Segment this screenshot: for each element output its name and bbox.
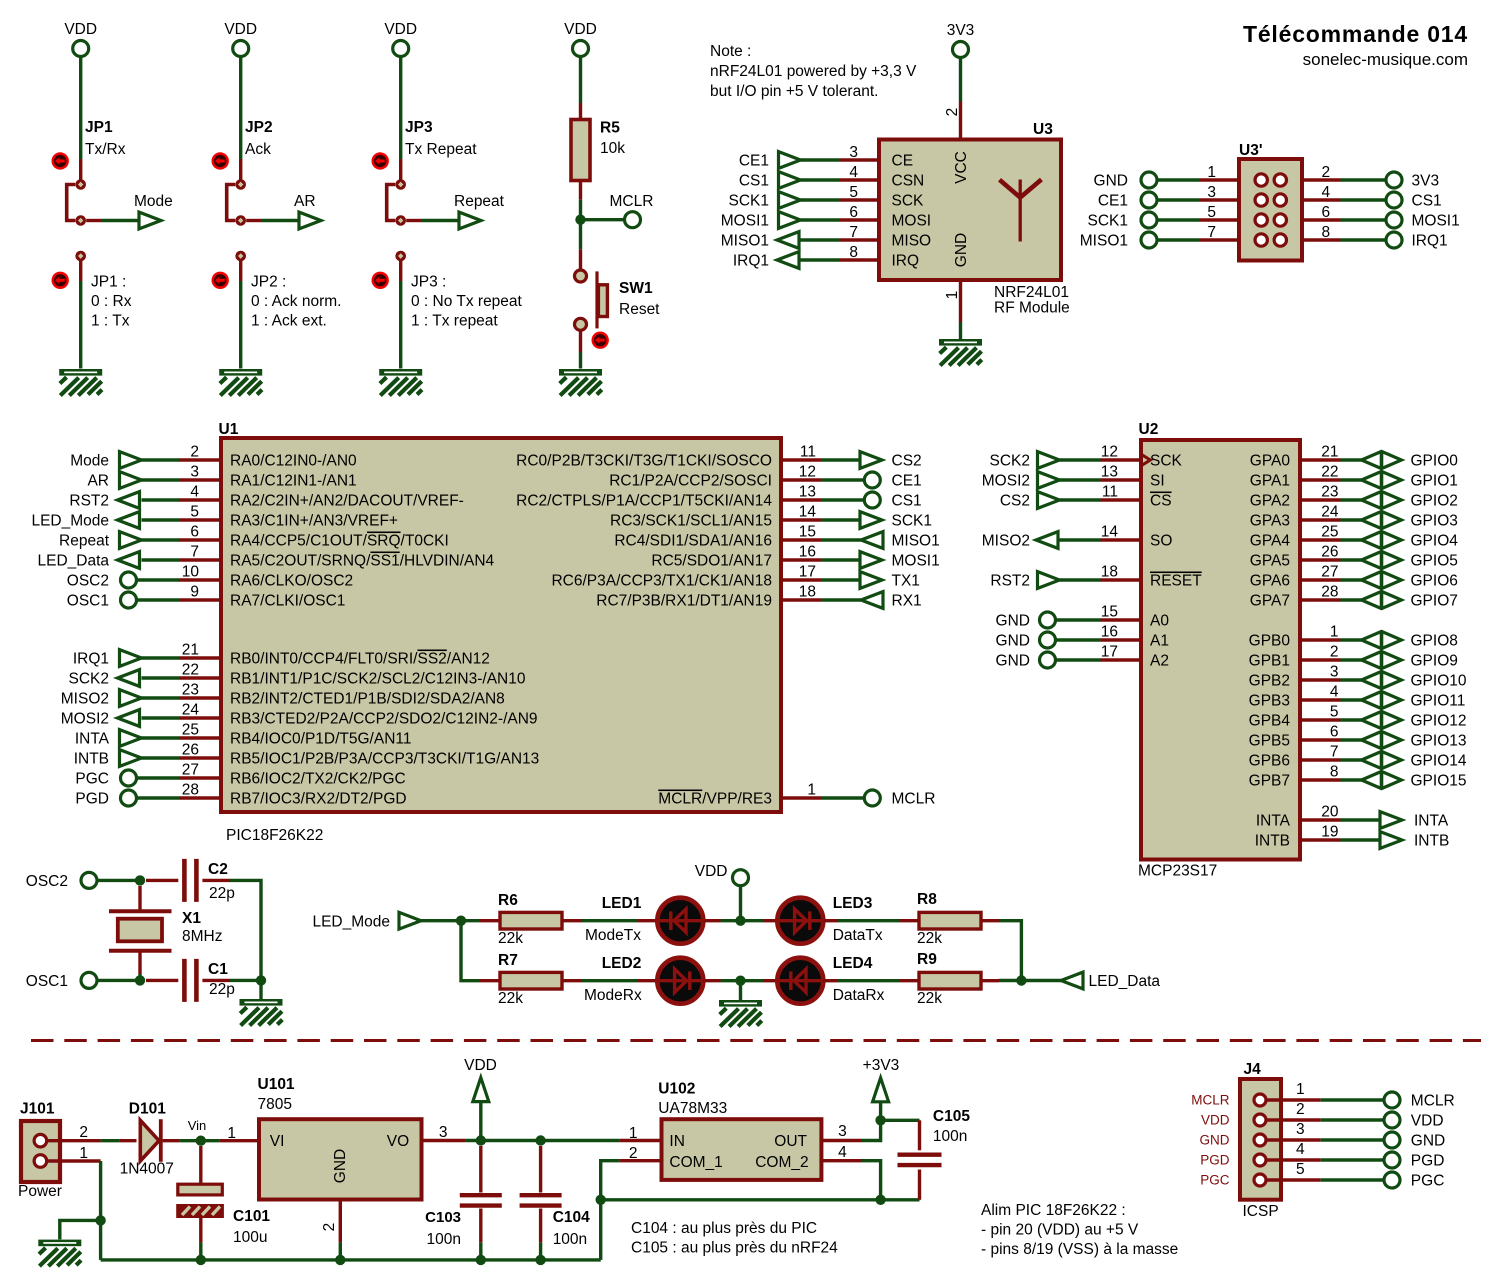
wire U3' pin 4 to CS1 — [1341, 198, 1387, 201]
U2 pin 7 (GPB6) — [1249, 744, 1341, 770]
svg-text:6: 6 — [190, 524, 199, 541]
svg-text:100n: 100n — [427, 1231, 461, 1248]
node Vin — [188, 1118, 207, 1146]
svg-text:CE: CE — [892, 153, 914, 170]
svg-text:RA7/CLKI/OSC1: RA7/CLKI/OSC1 — [230, 593, 345, 610]
node junction LED_Mode — [456, 916, 466, 926]
svg-text:Repeat: Repeat — [454, 193, 505, 210]
wire U2 pin 6 to GPIO13 — [1341, 738, 1362, 741]
terminal AR — [87, 472, 141, 490]
terminal PGD — [1384, 1152, 1444, 1170]
svg-text:IRQ1: IRQ1 — [73, 651, 109, 668]
terminal CS1 — [1386, 192, 1442, 210]
wire R7 to LED2 — [582, 979, 638, 982]
terminal GPIO6 — [1362, 571, 1458, 589]
svg-text:GPIO0: GPIO0 — [1411, 453, 1459, 470]
wire IRQ1 to U1 pin 21 — [142, 656, 180, 659]
svg-text:SCK2: SCK2 — [69, 671, 110, 688]
svg-text:GPIO13: GPIO13 — [1411, 733, 1467, 750]
wire ground node to LED4 — [741, 979, 764, 982]
power VDD terminal (R5 column) — [564, 21, 597, 57]
connector J101 Power — [18, 1101, 62, 1201]
svg-text:TX1: TX1 — [892, 573, 920, 590]
svg-text:VDD: VDD — [384, 21, 417, 38]
svg-text:CS1: CS1 — [892, 493, 922, 510]
wire CS2 to U2 pin 11 — [1060, 498, 1101, 501]
note text JP3 — [411, 274, 523, 330]
svg-text:LED_Mode: LED_Mode — [31, 513, 109, 530]
U1 pin 22 (SCK2) — [179, 662, 526, 688]
power 3V3 terminal — [947, 22, 975, 58]
U2 pin 13 (SI) — [1101, 464, 1165, 490]
RF module U3 NRF24L01 — [879, 102, 1070, 317]
wire R5 to SW1 — [579, 200, 582, 250]
svg-text:4: 4 — [190, 484, 199, 501]
wire MISO2 to U2 pin 14 — [1060, 538, 1101, 541]
svg-text:22k: 22k — [917, 990, 942, 1007]
J4 pin 2 (VDD) — [1201, 1101, 1321, 1128]
svg-text:GPA4: GPA4 — [1250, 533, 1291, 550]
svg-text:MCLR: MCLR — [610, 193, 654, 210]
U3 pin 5 SCK — [840, 184, 925, 210]
svg-text:Alim PIC 18F26K22 :: Alim PIC 18F26K22 : — [981, 1202, 1126, 1219]
svg-text:GPB4: GPB4 — [1249, 713, 1291, 730]
wire SCK2 to U2 pin 12 — [1060, 458, 1101, 461]
svg-text:10: 10 — [182, 564, 200, 581]
svg-text:nRF24L01 powered by +3,3 V: nRF24L01 powered by +3,3 V — [710, 63, 917, 80]
LED LED2 ModeRx — [584, 955, 721, 1004]
wire VDD to LED node — [739, 886, 742, 921]
J4 pin 5 (PGC) — [1200, 1161, 1320, 1188]
terminal SCK2 — [69, 670, 140, 688]
U2 pin 16 (A1) — [1101, 624, 1169, 650]
svg-text:3: 3 — [1207, 184, 1216, 201]
svg-text:100n: 100n — [933, 1128, 967, 1145]
svg-text:CE1: CE1 — [892, 473, 922, 490]
dashed separator line — [31, 1039, 1481, 1042]
svg-text:25: 25 — [182, 722, 199, 739]
svg-text:12: 12 — [799, 464, 816, 481]
U1 pin 27 (PGC) — [179, 762, 406, 788]
svg-text:Reset: Reset — [619, 301, 660, 318]
svg-text:SCK2: SCK2 — [990, 453, 1031, 470]
wire CS1 to U3 CSN — [801, 178, 840, 181]
svg-text:GPA5: GPA5 — [1250, 553, 1290, 570]
ground — [38, 1240, 81, 1267]
svg-text:- pins 8/19 (VSS) à la masse: - pins 8/19 (VSS) à la masse — [981, 1241, 1178, 1258]
svg-text:X1: X1 — [182, 910, 201, 927]
terminal GPIO0 — [1362, 451, 1459, 469]
capacitor C105 100n — [881, 1108, 971, 1200]
svg-text:1N4007: 1N4007 — [120, 1161, 174, 1178]
svg-text:VI: VI — [270, 1133, 285, 1150]
svg-text:JP2 :: JP2 : — [251, 274, 286, 291]
terminal CE1 — [864, 472, 921, 490]
terminal GPIO8 — [1362, 631, 1458, 649]
wire VDD to R5 — [579, 57, 582, 104]
svg-text:1: 1 — [227, 1125, 236, 1142]
power VDD terminal (LED section) — [695, 863, 749, 886]
svg-text:SI: SI — [1150, 473, 1165, 490]
svg-text:1: 1 — [1207, 164, 1216, 181]
U1 pin 18 (RX1) — [596, 584, 821, 610]
svg-text:MISO: MISO — [892, 233, 932, 250]
svg-text:C105: C105 — [933, 1108, 970, 1125]
U1 pin 28 (PGD) — [179, 782, 407, 808]
svg-text:VDD: VDD — [224, 21, 257, 38]
svg-text:A1: A1 — [1150, 633, 1169, 650]
svg-text:100u: 100u — [233, 1229, 267, 1246]
svg-text:JP1 :: JP1 : — [91, 274, 126, 291]
wire MISO1 to U3' pin 7 — [1157, 238, 1200, 241]
svg-text:1 : Tx repeat: 1 : Tx repeat — [411, 312, 498, 329]
svg-text:3: 3 — [1296, 1121, 1305, 1138]
power +3V3 terminal — [863, 1057, 900, 1120]
svg-text:22p: 22p — [209, 981, 235, 998]
svg-text:VDD: VDD — [564, 21, 597, 38]
svg-text:11: 11 — [1102, 484, 1118, 501]
svg-text:3: 3 — [838, 1123, 847, 1140]
svg-text:RB6/IOC2/TX2/CK2/PGC: RB6/IOC2/TX2/CK2/PGC — [230, 771, 406, 788]
U2 pin 11 (CS) — [1101, 484, 1172, 510]
terminal INTB — [74, 750, 142, 768]
svg-text:4: 4 — [849, 164, 858, 181]
U2 pin 26 (GPA5) — [1250, 544, 1341, 570]
wire IRQ1 to U3 IRQ — [801, 258, 840, 261]
wire junction to MCLR terminal — [581, 218, 625, 221]
svg-text:RB0/INT0/CCP4/FLT0/SRI/SS2/AN1: RB0/INT0/CCP4/FLT0/SRI/SS2/AN12 — [230, 651, 490, 668]
wire LED1 to VDD node — [721, 919, 741, 922]
svg-text:GPB6: GPB6 — [1249, 753, 1290, 770]
svg-text:MISO1: MISO1 — [892, 533, 940, 550]
svg-text:Note :: Note : — [710, 43, 751, 60]
svg-text:RA4/CCP5/C1OUT/SRQ/T0CKI: RA4/CCP5/C1OUT/SRQ/T0CKI — [230, 533, 449, 550]
wire U3 GND pin to ground — [944, 280, 961, 339]
svg-text:SCK: SCK — [892, 193, 925, 210]
wire J101 pin2 to D101 — [101, 1139, 120, 1142]
svg-text:NRF24L01: NRF24L01 — [994, 284, 1069, 301]
U1 pin 15 (MISO1) — [614, 524, 821, 550]
svg-text:CE1: CE1 — [739, 153, 769, 170]
svg-text:0 : Rx: 0 : Rx — [91, 293, 132, 310]
svg-text:22k: 22k — [498, 990, 523, 1007]
svg-text:RB7/IOC3/RX2/DT2/PGD: RB7/IOC3/RX2/DT2/PGD — [230, 791, 407, 808]
node junction COM_1 / 3V3 return — [596, 1195, 606, 1205]
svg-text:Ack: Ack — [245, 141, 271, 158]
capacitor C104 100n — [520, 1146, 591, 1248]
svg-text:15: 15 — [1101, 604, 1118, 621]
node junction OSC2 — [135, 875, 145, 885]
title Telecommande 014 — [1243, 21, 1468, 69]
wire VDD to 5V rail — [479, 1102, 482, 1141]
svg-text:DataRx: DataRx — [833, 987, 885, 1004]
svg-text:24: 24 — [182, 702, 200, 719]
svg-text:INTB: INTB — [1414, 833, 1449, 850]
U3' pin 2 (right) — [1274, 164, 1340, 186]
svg-text:IRQ1: IRQ1 — [1412, 233, 1448, 250]
svg-text:RF Module: RF Module — [994, 300, 1070, 317]
terminal LED_Mode — [312, 912, 421, 930]
wire VO to U102 IN (5V rail) — [466, 1139, 620, 1142]
svg-text:7: 7 — [1207, 224, 1216, 241]
svg-text:OSC1: OSC1 — [67, 593, 109, 610]
svg-text:OUT: OUT — [774, 1133, 807, 1150]
svg-text:DataTx: DataTx — [833, 927, 883, 944]
U3' pin 8 (right) — [1274, 224, 1340, 246]
power VDD terminal (JP3 column) — [384, 21, 417, 57]
svg-text:J101: J101 — [20, 1101, 55, 1118]
terminal OSC2 — [67, 572, 137, 590]
svg-text:26: 26 — [182, 742, 199, 759]
U1 pin 17 (TX1) — [551, 564, 821, 590]
terminal PGC — [1384, 1172, 1444, 1190]
svg-text:10k: 10k — [600, 140, 625, 157]
svg-text:8MHz: 8MHz — [182, 928, 222, 945]
wire GND to U2 pin 15 — [1056, 618, 1101, 621]
wire MOSI1 to U3 MOSI — [801, 218, 840, 221]
terminal SCK1 — [860, 512, 932, 530]
svg-text:1: 1 — [1296, 1081, 1305, 1098]
svg-text:RA6/CLKO/OSC2: RA6/CLKO/OSC2 — [230, 573, 353, 590]
node junction U101 GND rail — [335, 1255, 345, 1265]
svg-text:2: 2 — [321, 1223, 338, 1232]
svg-text:MOSI: MOSI — [892, 213, 932, 230]
wire D101 to U101 VI (node Vin) — [179, 1139, 219, 1142]
terminal CE1 — [739, 152, 801, 170]
svg-text:sonelec-musique.com: sonelec-musique.com — [1303, 50, 1468, 69]
svg-text:GND: GND — [1411, 1133, 1445, 1150]
svg-text:PIC18F26K22: PIC18F26K22 — [226, 827, 323, 844]
svg-text:VDD: VDD — [464, 1057, 497, 1074]
wire LED_Data to U1 pin 7 — [142, 558, 180, 561]
ground — [379, 369, 422, 396]
marker on JP2 lower pin — [212, 272, 229, 289]
wire U2 pin 19 to INTB — [1341, 838, 1381, 841]
svg-text:RC1/P2A/CCP2/SOSCI: RC1/P2A/CCP2/SOSCI — [609, 473, 772, 490]
wire J4 pin 4 to PGD — [1321, 1158, 1384, 1161]
svg-text:LED_Mode: LED_Mode — [312, 914, 390, 931]
svg-text:- pin 20 (VDD) au +5 V: - pin 20 (VDD) au +5 V — [981, 1222, 1139, 1239]
node junction LED ground — [735, 976, 745, 986]
wire U1 pin 11 to CS2 — [821, 458, 861, 461]
wire VDD to JP1 — [79, 57, 82, 160]
svg-text:LED2: LED2 — [602, 955, 642, 972]
U1 pin 1 (MCLR) — [658, 782, 821, 808]
U2 pin 24 (GPA3) — [1250, 504, 1341, 530]
svg-text:MISO1: MISO1 — [1080, 233, 1128, 250]
wire PGD to U1 pin 28 — [137, 796, 180, 799]
terminal MOSI2 — [61, 710, 140, 728]
terminal GPIO5 — [1362, 551, 1458, 569]
svg-text:PGC: PGC — [1411, 1173, 1445, 1190]
svg-text:MCLR/VPP/RE3: MCLR/VPP/RE3 — [658, 791, 772, 808]
wire MISO1 to U3 MISO — [801, 238, 840, 241]
svg-text:SCK1: SCK1 — [729, 193, 770, 210]
J4 pin 3 (GND) — [1200, 1121, 1321, 1148]
terminal LED_Mode — [31, 512, 139, 530]
svg-text:RST2: RST2 — [69, 493, 109, 510]
wire U1 pin 16 to MOSI1 — [821, 558, 861, 561]
wire C1 to ground — [230, 979, 261, 982]
svg-text:CSN: CSN — [892, 173, 925, 190]
terminal RST2 — [990, 572, 1059, 590]
terminal GPIO14 — [1362, 751, 1467, 769]
wire U1 pin 13 to CS1 — [821, 498, 864, 501]
svg-text:GPB5: GPB5 — [1249, 733, 1290, 750]
svg-text:3: 3 — [439, 1124, 448, 1141]
ground — [719, 1000, 762, 1027]
svg-text:22p: 22p — [209, 885, 235, 902]
svg-text:3: 3 — [190, 464, 199, 481]
terminal GPIO2 — [1362, 491, 1458, 509]
marker on JP3 pin — [372, 152, 389, 169]
jumper JP1 lower pin — [75, 251, 86, 281]
svg-text:GPIO11: GPIO11 — [1411, 693, 1466, 710]
node junction J101 ground — [95, 1215, 105, 1225]
svg-text:GND: GND — [953, 233, 970, 267]
U1 pin 11 (CS2) — [516, 444, 821, 470]
svg-text:GPB7: GPB7 — [1249, 773, 1290, 790]
wire J4 pin 3 to GND — [1321, 1138, 1384, 1141]
svg-text:GPIO5: GPIO5 — [1411, 553, 1458, 570]
wire Mode to U1 pin 2 — [142, 458, 180, 461]
svg-text:GPIO8: GPIO8 — [1411, 633, 1458, 650]
U2 pin 8 (GPB7) — [1249, 764, 1341, 790]
U2 pin 27 (GPA6) — [1250, 564, 1341, 590]
svg-text:13: 13 — [1101, 464, 1118, 481]
svg-text:GPIO6: GPIO6 — [1411, 573, 1458, 590]
svg-text:but I/O pin +5 V tolerant.: but I/O pin +5 V tolerant. — [710, 83, 878, 100]
svg-text:2: 2 — [1330, 644, 1339, 661]
terminal IRQ1 — [73, 650, 142, 668]
svg-text:R6: R6 — [498, 892, 518, 909]
wire INTB to U1 pin 26 — [142, 756, 180, 759]
wire X1 to OSC1 node — [138, 974, 141, 980]
svg-text:UA78M33: UA78M33 — [658, 1100, 727, 1117]
svg-text:GPIO15: GPIO15 — [1411, 773, 1467, 790]
svg-text:GPA0: GPA0 — [1250, 453, 1291, 470]
wire SCK1 to U3' pin 5 — [1157, 218, 1200, 221]
node junction C103 rail — [476, 1255, 486, 1265]
terminal INTB — [1380, 832, 1449, 850]
U2 pin 20 (INTA) — [1256, 804, 1341, 830]
wire C103 to rail — [479, 1242, 482, 1260]
svg-text:AR: AR — [87, 473, 109, 490]
U2 pin 23 (GPA2) — [1250, 484, 1341, 510]
svg-text:23: 23 — [182, 682, 199, 699]
svg-text:9: 9 — [190, 584, 199, 601]
svg-text:C104 : au plus près du PIC: C104 : au plus près du PIC — [631, 1220, 817, 1237]
svg-text:22: 22 — [1321, 464, 1338, 481]
svg-text:INTA: INTA — [75, 731, 110, 748]
IC U2 MCP23S17 — [1138, 421, 1300, 880]
svg-text:D101: D101 — [129, 1101, 166, 1118]
svg-text:SCK1: SCK1 — [892, 513, 933, 530]
svg-text:RA0/C12IN0-/AN0: RA0/C12IN0-/AN0 — [230, 453, 357, 470]
U1 pin 9 (OSC1) — [179, 584, 345, 610]
U2 pin 19 (INTB) — [1255, 824, 1341, 850]
svg-text:U3': U3' — [1239, 142, 1263, 159]
svg-text:Vin: Vin — [188, 1118, 207, 1133]
U1 pin 24 (MOSI2) — [179, 702, 538, 728]
node junction C103 — [476, 1135, 486, 1145]
U1 pin 21 (IRQ1) — [179, 642, 490, 668]
svg-text:19: 19 — [1321, 824, 1338, 841]
svg-text:21: 21 — [182, 642, 199, 659]
terminal GPIO11 — [1362, 691, 1466, 709]
node junction C104 rail — [535, 1255, 545, 1265]
wire SCK1 to U3 SCK — [801, 198, 840, 201]
J101 pin 1 wire to ground rail — [46, 1145, 101, 1260]
node junction LED_Data — [1016, 975, 1026, 985]
svg-text:28: 28 — [182, 782, 199, 799]
svg-text:LED_Data: LED_Data — [37, 553, 109, 570]
svg-text:VDD: VDD — [64, 21, 97, 38]
svg-text:12: 12 — [1101, 444, 1118, 461]
svg-text:RC0/P2B/T3CKI/T3G/T1CKI/SOSCO: RC0/P2B/T3CKI/T3G/T1CKI/SOSCO — [516, 453, 772, 470]
power VDD terminal (JP1 column) — [64, 21, 97, 57]
svg-text:27: 27 — [1321, 564, 1338, 581]
wire C104 to rail — [539, 1242, 542, 1260]
svg-text:MISO2: MISO2 — [61, 691, 109, 708]
svg-text:GPIO4: GPIO4 — [1411, 533, 1459, 550]
svg-text:RC2/CTPLS/P1A/CCP1/T5CKI/AN14: RC2/CTPLS/P1A/CCP1/T5CKI/AN14 — [516, 493, 772, 510]
svg-text:7: 7 — [849, 224, 858, 241]
svg-text:RC3/SCK1/SCL1/AN15: RC3/SCK1/SCL1/AN15 — [610, 513, 772, 530]
note text JP1 — [91, 274, 132, 330]
wire R8 to LED_Data node — [999, 921, 1021, 981]
svg-text:25: 25 — [1321, 524, 1338, 541]
node junction COM_2 return — [875, 1195, 885, 1205]
svg-text:7: 7 — [190, 544, 199, 561]
wire GND to U2 pin 17 — [1056, 658, 1101, 661]
svg-text:RB3/CTED2/P2A/CCP2/SDO2/C12IN2: RB3/CTED2/P2A/CCP2/SDO2/C12IN2-/AN9 — [230, 711, 538, 728]
svg-text:2: 2 — [944, 108, 961, 117]
svg-text:C104: C104 — [553, 1209, 590, 1226]
wire OSC2 to X1 — [97, 879, 140, 882]
J4 pin 1 (MCLR) — [1191, 1081, 1320, 1108]
svg-text:3V3: 3V3 — [1412, 173, 1440, 190]
svg-text:GPIO12: GPIO12 — [1411, 713, 1467, 730]
svg-text:GPB3: GPB3 — [1249, 693, 1290, 710]
svg-text:VO: VO — [387, 1133, 409, 1150]
svg-text:VCC: VCC — [953, 151, 970, 184]
terminal MCLR — [864, 790, 935, 808]
jumper JP2 lower pin — [235, 251, 246, 281]
U1 pin 14 (SCK1) — [610, 504, 821, 530]
svg-text:16: 16 — [1101, 624, 1118, 641]
terminal TX1 — [860, 572, 920, 590]
svg-text:PGD: PGD — [75, 791, 109, 808]
svg-text:CE1: CE1 — [1098, 193, 1128, 210]
svg-text:PGD: PGD — [1411, 1153, 1445, 1170]
svg-text:14: 14 — [1101, 524, 1119, 541]
terminal INTA — [75, 730, 142, 748]
svg-text:OSC2: OSC2 — [67, 573, 109, 590]
note text Alim PIC — [981, 1202, 1178, 1258]
U2 pin 2 (GPB1) — [1249, 644, 1341, 670]
svg-text:MOSI1: MOSI1 — [892, 553, 940, 570]
svg-text:5: 5 — [1330, 704, 1339, 721]
U2 pin 5 (GPB4) — [1249, 704, 1341, 730]
svg-text:18: 18 — [799, 584, 816, 601]
wire U3' pin 8 to IRQ1 — [1341, 238, 1387, 241]
terminal GPIO15 — [1362, 771, 1467, 789]
svg-text:A2: A2 — [1150, 653, 1169, 670]
wire OSC1 to X1 — [97, 979, 140, 982]
regulator U102 UA78M33 — [620, 1081, 822, 1180]
svg-text:20: 20 — [1321, 804, 1339, 821]
